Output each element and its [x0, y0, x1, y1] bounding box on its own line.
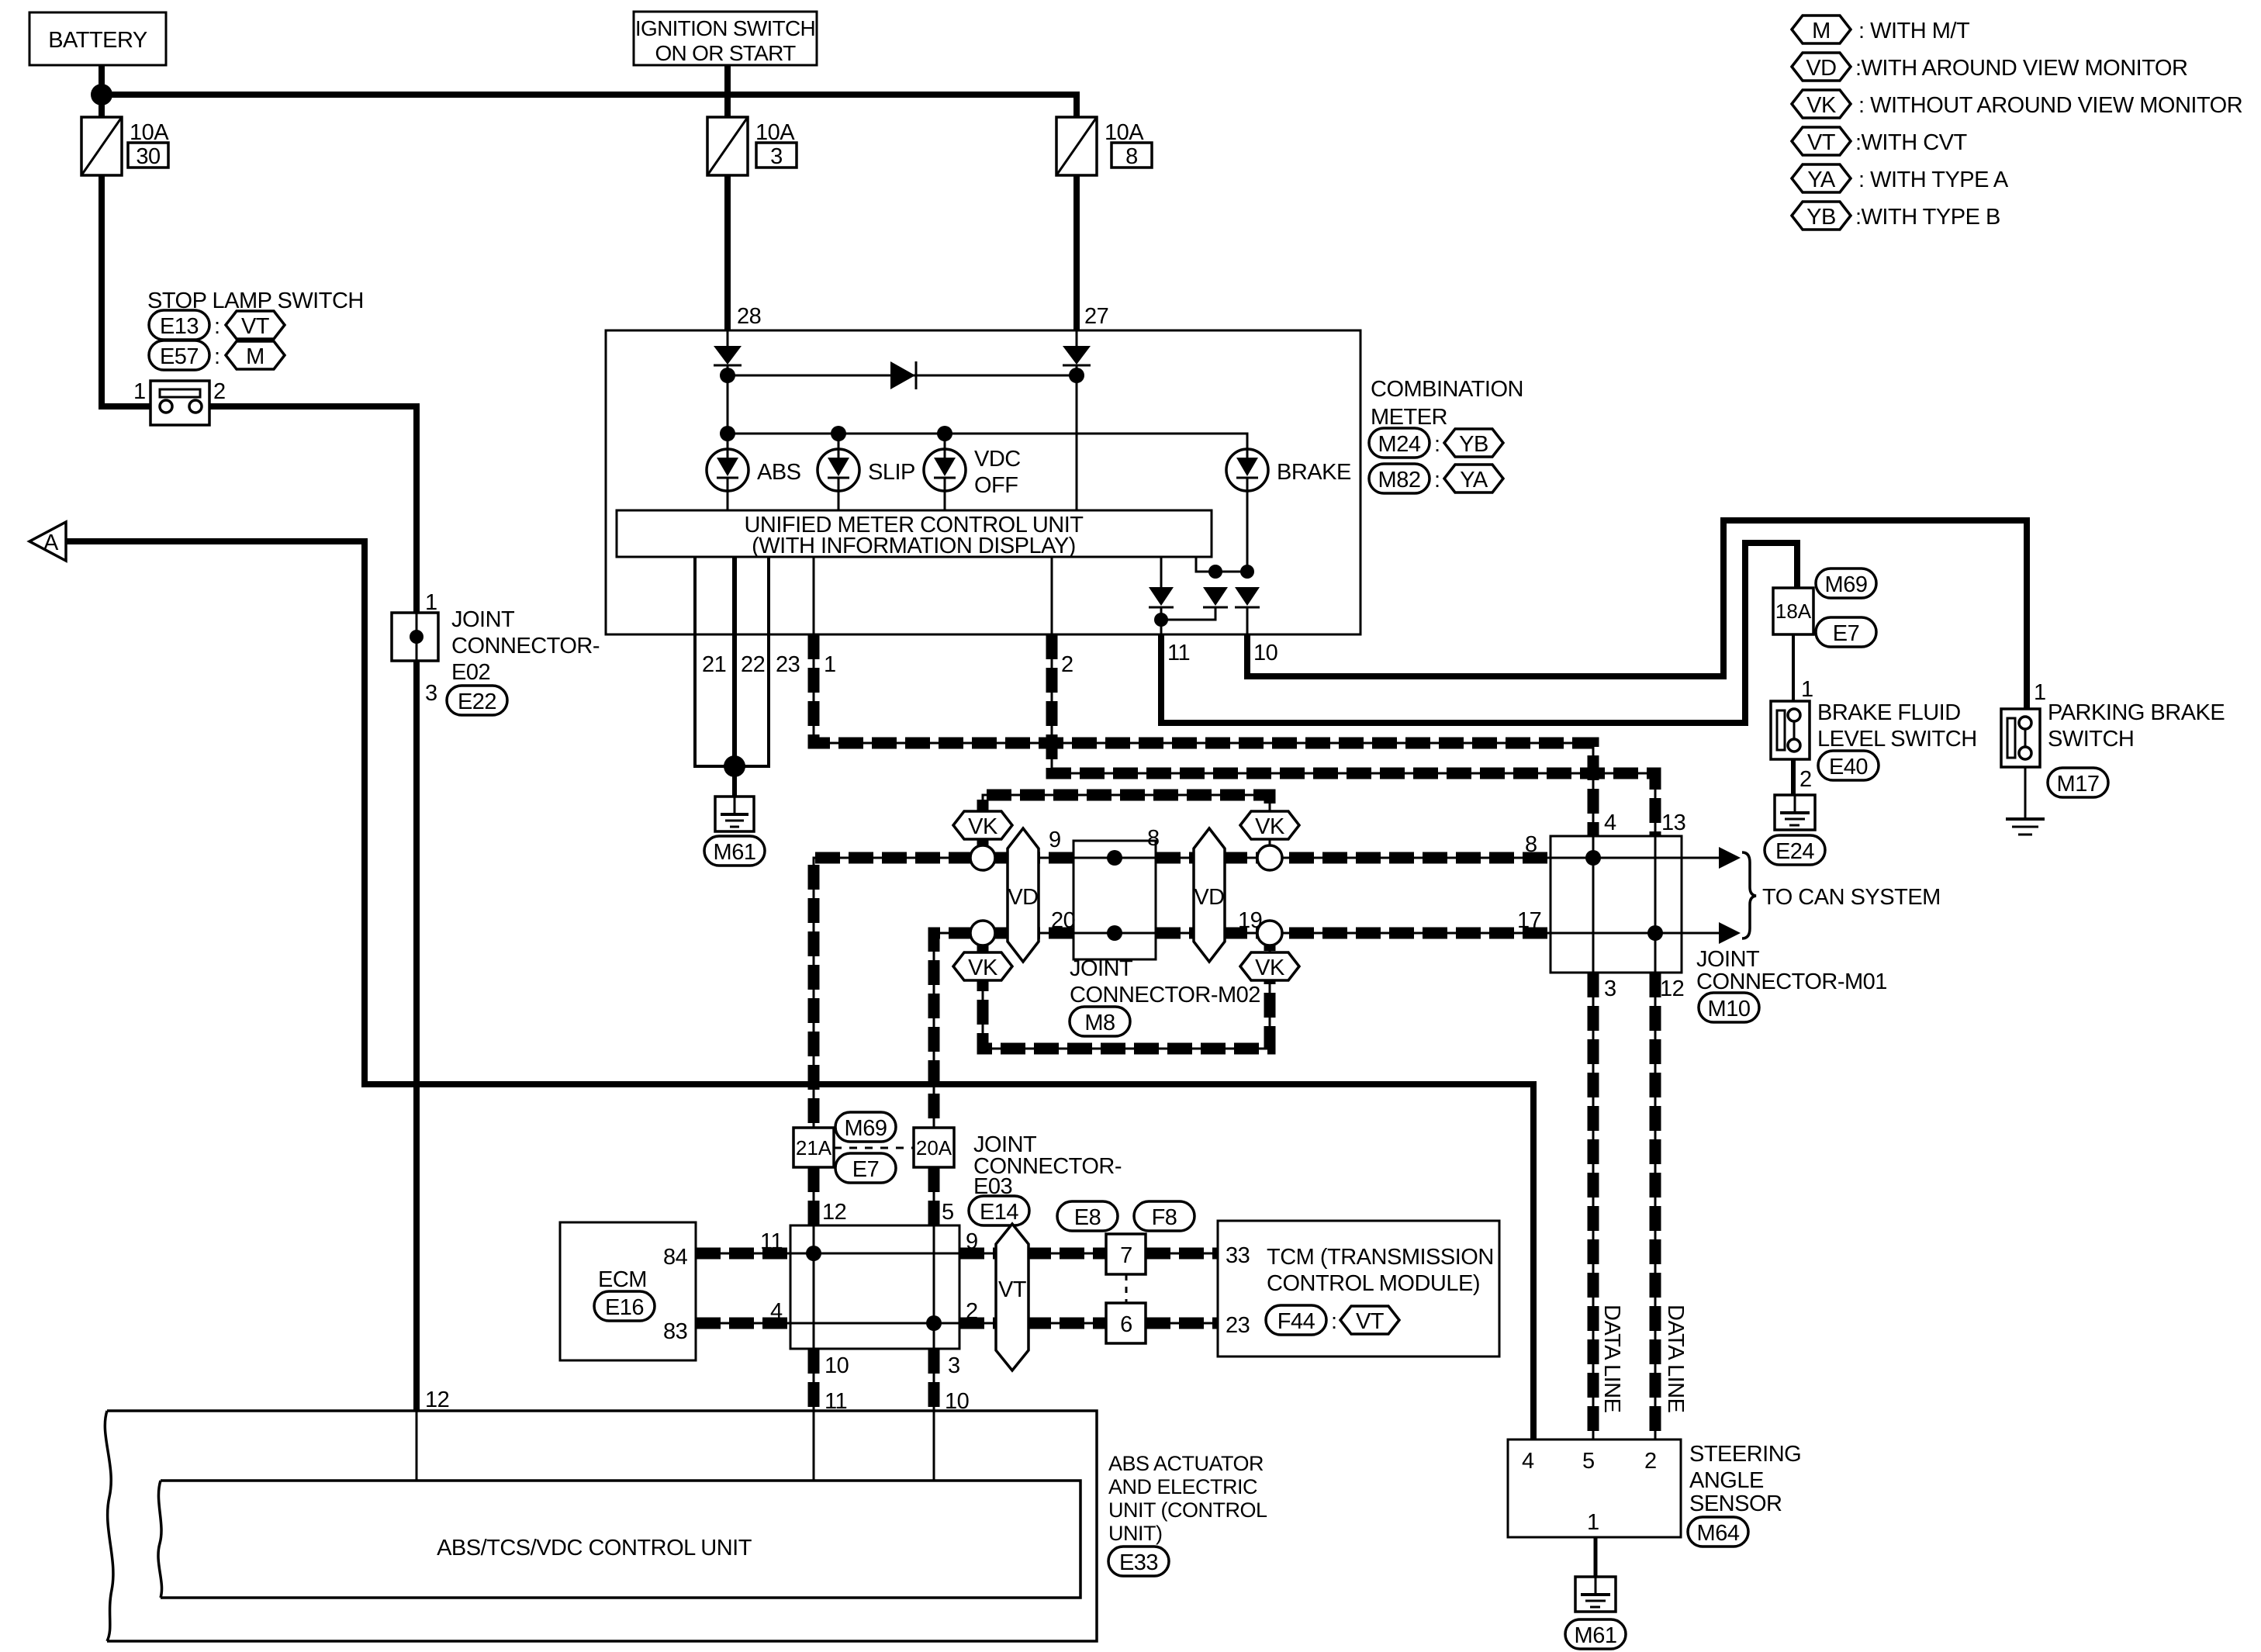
- wire stubs to LEDs: [727, 434, 729, 451]
- connector id M10: [1699, 993, 1759, 1022]
- svg-text::: :: [1434, 432, 1440, 457]
- svg-text:VK: VK: [1255, 814, 1285, 839]
- variant tag M legend: [1792, 16, 1851, 43]
- svg-text:2: 2: [1644, 1449, 1657, 1474]
- svg-text:20A: 20A: [916, 1136, 952, 1160]
- wire meter pin 28 internal: [727, 330, 729, 347]
- connector 6 box: [1106, 1303, 1146, 1343]
- svg-text:5: 5: [1582, 1449, 1595, 1474]
- svg-text::: :: [214, 314, 220, 339]
- svg-text:LEVEL SWITCH: LEVEL SWITCH: [1817, 727, 1977, 752]
- svg-text:A: A: [43, 531, 59, 555]
- svg-text:84: 84: [663, 1245, 688, 1270]
- svg-text:10: 10: [825, 1353, 849, 1378]
- svg-text:M82: M82: [1378, 468, 1421, 492]
- svg-text:: WITHOUT AROUND VIEW MONITOR: : WITHOUT AROUND VIEW MONITOR: [1858, 93, 2242, 118]
- variant tag VK lower left: [953, 952, 1012, 980]
- junction circle upper left: [970, 845, 995, 870]
- wire cross link 28-27: [728, 375, 1077, 377]
- svg-text:BATTERY: BATTERY: [48, 28, 147, 53]
- svg-text:E24: E24: [1775, 839, 1814, 864]
- joint connector E02: [392, 613, 438, 661]
- svg-text:10A: 10A: [130, 120, 169, 145]
- wire CAN row B: corner down to fuse 20A and right to M02 pin 20: [934, 933, 1073, 1128]
- svg-text:10A: 10A: [1105, 120, 1144, 145]
- svg-text::WITH TYPE B: :WITH TYPE B: [1855, 205, 2000, 230]
- svg-text:VT: VT: [241, 314, 270, 339]
- svg-text:23: 23: [1226, 1313, 1250, 1338]
- svg-text:E8: E8: [1074, 1205, 1101, 1230]
- connector id M64: [1688, 1517, 1748, 1547]
- wire reference A to steering angle sensor pin 4: [66, 541, 1533, 1439]
- svg-text:JOINT: JOINT: [1070, 956, 1133, 981]
- fuse 30 (10A): [81, 117, 122, 175]
- wire unified unit pin 2: [1051, 557, 1053, 634]
- wire data line M01 pin 12 to steering angle sensor pin 2: [1654, 973, 1657, 1439]
- variant tag M: [226, 341, 285, 369]
- svg-text:8: 8: [1147, 826, 1160, 851]
- svg-text:: WITH M/T: : WITH M/T: [1858, 19, 1970, 43]
- svg-text:VT: VT: [1356, 1309, 1385, 1334]
- svg-text:JOINT: JOINT: [1696, 947, 1760, 972]
- ABS actuator outer box: [105, 1411, 1097, 1641]
- wire CAN row A: corner down to fuse 21A and right to M02 pin 9: [814, 858, 1073, 1128]
- svg-text:DATA LINE: DATA LINE: [1599, 1305, 1624, 1413]
- variant tag YB: [1444, 429, 1503, 457]
- variant shape VT (E03): [996, 1224, 1029, 1370]
- variant tag YA legend: [1792, 164, 1851, 192]
- wire E03 pin 3 to ABS unit pin 10: [933, 1349, 935, 1411]
- svg-text:21: 21: [702, 652, 726, 677]
- svg-text:6: 6: [1120, 1312, 1132, 1337]
- svg-text:M69: M69: [845, 1116, 887, 1141]
- svg-text:OFF: OFF: [974, 473, 1018, 498]
- svg-text:TCM (TRANSMISSION: TCM (TRANSMISSION: [1267, 1245, 1494, 1270]
- connector id E7: [1816, 617, 1876, 647]
- fuse 8 (10A): [1056, 117, 1097, 175]
- svg-text:1: 1: [133, 379, 146, 404]
- svg-text:19: 19: [1238, 908, 1262, 933]
- wire E02 branch inside ABS unit: [416, 1411, 418, 1481]
- svg-text:4: 4: [1522, 1449, 1534, 1474]
- svg-text:CONNECTOR-: CONNECTOR-: [451, 634, 600, 658]
- svg-text:3: 3: [1604, 976, 1616, 1001]
- wire meter pin 11 to fuse 18A: [1161, 543, 1797, 723]
- svg-text:ABS/TCS/VDC CONTROL UNIT: ABS/TCS/VDC CONTROL UNIT: [437, 1536, 752, 1560]
- fuse 18A: [1773, 588, 1813, 634]
- svg-text:E40: E40: [1829, 755, 1868, 779]
- variant shape VD left: [1008, 828, 1039, 962]
- battery box: [29, 12, 166, 65]
- connector id M17: [2048, 768, 2108, 797]
- diode D6 pin 10 branch: [1235, 587, 1260, 607]
- wire D2 to unified meter control unit: [1076, 365, 1078, 512]
- svg-text:VT: VT: [1807, 130, 1836, 155]
- wire VK bypass loop lower: [983, 933, 1270, 1049]
- variant shape VD right: [1194, 828, 1225, 962]
- ground parking brake: [2006, 819, 2045, 835]
- ECM box: [560, 1222, 696, 1360]
- svg-text:IGNITION SWITCH: IGNITION SWITCH: [635, 16, 815, 40]
- svg-text:SLIP: SLIP: [868, 460, 915, 485]
- svg-text:YA: YA: [1460, 468, 1488, 492]
- wire diode cluster top link: [1215, 571, 1247, 573]
- svg-text:5: 5: [942, 1200, 954, 1225]
- svg-text:ABS ACTUATOR: ABS ACTUATOR: [1108, 1452, 1264, 1475]
- wire fuse 8 to meter pin 27: [1073, 175, 1080, 330]
- wire CAN row B: M02 pin 19 to M01 pin 17: [1156, 932, 1551, 935]
- svg-text:M17: M17: [2057, 772, 2100, 797]
- svg-text:M: M: [246, 344, 264, 369]
- wire LED feed row: [728, 434, 1247, 451]
- unified meter control unit box: [617, 510, 1212, 557]
- junction circle lower left: [970, 921, 995, 945]
- svg-text:E13: E13: [160, 314, 199, 339]
- svg-text::WITH AROUND VIEW MONITOR: :WITH AROUND VIEW MONITOR: [1855, 56, 2187, 81]
- connector id M82: [1369, 464, 1430, 493]
- svg-text:VK: VK: [1255, 956, 1285, 980]
- ground M61 (sensor): [1575, 1577, 1616, 1612]
- LED VDC OFF warning lamp: [924, 449, 966, 491]
- connector id F44: [1266, 1305, 1326, 1335]
- ABS/TCS/VDC control unit inner box: [158, 1481, 1080, 1598]
- svg-text:11: 11: [760, 1229, 783, 1254]
- svg-text:9: 9: [966, 1229, 978, 1254]
- svg-text:VDC: VDC: [974, 447, 1021, 472]
- svg-text:CONTROL MODULE): CONTROL MODULE): [1267, 1271, 1480, 1296]
- wire fuse 30 to stop lamp switch pin 1: [102, 175, 155, 406]
- svg-text:YB: YB: [1806, 205, 1836, 230]
- wire unified unit pin 22: [732, 557, 737, 797]
- svg-text:10: 10: [1253, 641, 1277, 665]
- wire E03 pin 10 to ABS unit pin 11: [813, 1349, 815, 1411]
- svg-text:33: 33: [1226, 1243, 1250, 1268]
- node diode cluster bottom: [1154, 613, 1168, 627]
- svg-text:BRAKE: BRAKE: [1277, 460, 1351, 485]
- wire BRAKE LED to diode cluster: [1246, 491, 1249, 572]
- node LED row SLIP: [831, 426, 846, 441]
- svg-text:E7: E7: [1833, 621, 1859, 646]
- ground M61 (meter): [715, 797, 754, 831]
- svg-text:2: 2: [213, 379, 226, 404]
- svg-text:PARKING BRAKE: PARKING BRAKE: [2048, 700, 2225, 725]
- junction circle upper right: [1257, 845, 1282, 870]
- wire steering angle sensor pin 1 to ground M61: [1594, 1537, 1598, 1577]
- svg-text:VK: VK: [1806, 93, 1837, 118]
- wire unified unit pin 1: [813, 557, 815, 634]
- joint connector E03 box: [790, 1225, 959, 1349]
- diode D1 below pin 28: [714, 346, 742, 365]
- wire pin 10 inside ABS unit: [933, 1411, 935, 1481]
- ground E24: [1775, 795, 1815, 830]
- variant tag VT: [226, 311, 285, 339]
- variant tag VT legend: [1792, 127, 1851, 155]
- svg-text:: WITH TYPE A: : WITH TYPE A: [1858, 168, 2009, 192]
- wire fuse 3 to meter pin 28: [724, 175, 731, 330]
- wire stop lamp switch pin 2 to ABS unit pin 12 (via joint connector E02): [203, 406, 417, 1411]
- connector id M24: [1369, 428, 1430, 458]
- svg-text:83: 83: [663, 1319, 687, 1344]
- svg-text::: :: [1331, 1309, 1337, 1334]
- svg-text:21A: 21A: [796, 1136, 832, 1160]
- variant tag YB legend: [1792, 202, 1851, 230]
- svg-text:M64: M64: [1697, 1521, 1740, 1546]
- svg-text:17: 17: [1517, 908, 1541, 933]
- svg-text::WITH CVT: :WITH CVT: [1855, 130, 1967, 155]
- svg-text:1: 1: [1801, 677, 1813, 702]
- svg-text:1: 1: [2034, 680, 2046, 705]
- svg-text:20: 20: [1051, 908, 1075, 933]
- diode D3 cross link: [890, 361, 916, 389]
- brake fluid level switch: [1771, 701, 1810, 759]
- wire meter pin2 CAN-L to joint connector M01 pin 13: [1052, 634, 1655, 836]
- svg-text:JOINT: JOINT: [451, 607, 515, 632]
- wire diode cluster bottom link: [1160, 607, 1163, 634]
- svg-text:VK: VK: [968, 814, 998, 839]
- connector id M61 sensor: [1565, 1619, 1626, 1649]
- svg-text:E14: E14: [980, 1200, 1018, 1225]
- variant tag VK upper right: [1240, 811, 1299, 839]
- svg-text:E57: E57: [160, 344, 199, 369]
- svg-text:8: 8: [1525, 832, 1537, 857]
- ignition switch box: [634, 12, 817, 65]
- node 27 branch: [1069, 368, 1084, 383]
- wire unified unit to diode cluster left: [1160, 557, 1163, 587]
- connector id E13: [149, 310, 209, 340]
- svg-text:M24: M24: [1378, 432, 1421, 457]
- diode D4 pin 11 branch: [1149, 587, 1174, 607]
- wire LEDs to unified meter control unit: [727, 491, 729, 512]
- LED SLIP warning lamp: [818, 449, 859, 491]
- wire data line M01 pin 3 to steering angle sensor pin 5: [1592, 973, 1595, 1439]
- connector id M61: [704, 836, 765, 866]
- connector id M69 (E7 fuse block): [835, 1112, 896, 1142]
- svg-text:1: 1: [824, 652, 836, 677]
- node LED row ABS: [720, 426, 735, 441]
- wire D1 to LED row: [727, 365, 729, 434]
- svg-text:3: 3: [770, 144, 783, 169]
- svg-text:1: 1: [425, 590, 437, 615]
- svg-text:(WITH INFORMATION DISPLAY): (WITH INFORMATION DISPLAY): [752, 534, 1076, 558]
- svg-text:8: 8: [1125, 144, 1138, 169]
- svg-text:9: 9: [1049, 828, 1061, 852]
- wire VK bypass bridge upper: [983, 795, 1270, 858]
- svg-text:DATA LINE: DATA LINE: [1663, 1305, 1688, 1413]
- svg-text:ON OR START: ON OR START: [655, 41, 796, 65]
- dashed link 7-6: [1125, 1274, 1128, 1303]
- svg-text:M10: M10: [1708, 997, 1751, 1021]
- diode D5 middle branch: [1203, 587, 1228, 607]
- svg-text:VT: VT: [998, 1277, 1027, 1302]
- connector id E8: [1057, 1201, 1118, 1231]
- fuse 21A: [793, 1128, 834, 1167]
- connector id E57: [149, 340, 209, 370]
- svg-text:SWITCH: SWITCH: [2048, 727, 2134, 752]
- connector id E40: [1818, 751, 1879, 780]
- svg-text:ANGLE: ANGLE: [1689, 1468, 1764, 1493]
- parking brake switch: [2001, 709, 2040, 767]
- joint connector M01 box: [1551, 836, 1682, 973]
- TCM box: [1218, 1221, 1499, 1357]
- svg-text:VD: VD: [1008, 885, 1038, 910]
- fuse 20A: [914, 1128, 954, 1167]
- variant tag VK lower right: [1240, 952, 1299, 980]
- svg-text:BRAKE FLUID: BRAKE FLUID: [1817, 700, 1961, 725]
- svg-text:3: 3: [948, 1353, 960, 1378]
- joint connector M02 box: [1073, 841, 1156, 959]
- svg-text:VD: VD: [1194, 885, 1224, 910]
- wire unified unit to diode cluster middle: [1196, 557, 1215, 572]
- connector id E7 (fuse block): [835, 1153, 896, 1183]
- svg-text:1: 1: [1587, 1510, 1599, 1535]
- svg-text:12: 12: [822, 1200, 846, 1225]
- connector id F8: [1134, 1201, 1194, 1231]
- wire CAN out lower with arrow: [1682, 922, 1741, 944]
- node 28 branch: [720, 368, 735, 383]
- svg-text:28: 28: [737, 304, 761, 329]
- wire connector 6 to TCM pin 23: [1146, 1322, 1218, 1325]
- svg-text:ABS: ABS: [757, 460, 801, 485]
- wire parking brake switch to ground: [2024, 766, 2027, 819]
- node diode cluster top middle: [1208, 565, 1222, 579]
- variant tag YA: [1444, 465, 1503, 492]
- variant tag VK legend: [1792, 90, 1851, 118]
- wire unified unit pin 21: [695, 557, 735, 766]
- svg-text:YA: YA: [1807, 168, 1836, 192]
- svg-text:11: 11: [1167, 641, 1190, 665]
- svg-text:E02: E02: [451, 660, 490, 685]
- svg-text:VK: VK: [968, 956, 998, 980]
- svg-text:2: 2: [1799, 767, 1812, 792]
- svg-text:CONNECTOR-M01: CONNECTOR-M01: [1696, 969, 1887, 994]
- svg-text:2: 2: [1061, 652, 1073, 677]
- connector id E24: [1765, 835, 1825, 865]
- wire meter pin1 CAN-H to joint connector M01 pin 4: [814, 634, 1593, 836]
- svg-text::: :: [214, 344, 220, 369]
- connector id E22: [447, 686, 507, 715]
- svg-text:12: 12: [1660, 976, 1684, 1001]
- svg-text:22: 22: [741, 652, 765, 677]
- svg-text:30: 30: [136, 144, 160, 169]
- svg-text:E22: E22: [458, 689, 496, 714]
- LED ABS warning lamp: [707, 449, 748, 491]
- variant tag VD legend: [1792, 53, 1851, 81]
- wire fuse 21A to joint connector E03 pin 12: [813, 1167, 815, 1225]
- connector id M69: [1816, 569, 1876, 598]
- node ground junction 21-22-23: [724, 755, 745, 777]
- svg-text:12: 12: [425, 1388, 449, 1412]
- node battery junction: [91, 84, 112, 105]
- svg-text:3: 3: [425, 681, 437, 706]
- wire battery bus to fuse 8: [102, 95, 1077, 117]
- fuse 3 (10A): [707, 117, 748, 175]
- wire E03 pin 2 to connector 6: [959, 1322, 1106, 1325]
- variant tag VT (TCM): [1340, 1306, 1399, 1334]
- svg-text:M61: M61: [1575, 1623, 1617, 1648]
- wire unified unit pin 23: [735, 557, 769, 766]
- svg-text:18A: 18A: [1775, 600, 1812, 623]
- wire CAN out upper with arrow: [1682, 847, 1741, 869]
- svg-text:ECM: ECM: [598, 1267, 647, 1292]
- wire fuse 20A to joint connector E03 pin 5: [933, 1167, 935, 1225]
- variant tag VK upper left: [953, 811, 1012, 839]
- svg-text:M61: M61: [714, 840, 756, 865]
- wire ECM 83 to E03 pin 4: [696, 1322, 790, 1325]
- svg-text:F8: F8: [1152, 1205, 1177, 1230]
- svg-text:CONNECTOR-M02: CONNECTOR-M02: [1070, 983, 1260, 1007]
- node LED row VDC OFF: [937, 426, 952, 441]
- svg-text:E7: E7: [852, 1157, 879, 1182]
- svg-text:23: 23: [776, 652, 800, 677]
- svg-text:E33: E33: [1119, 1550, 1158, 1575]
- wire ECM 84 to E03 pin 11: [696, 1253, 790, 1255]
- svg-text:VD: VD: [1806, 56, 1836, 81]
- stop lamp switch S1: [150, 381, 209, 425]
- junction circle lower right: [1257, 921, 1282, 945]
- wire E03 pin 9 to connector 7: [959, 1253, 1106, 1255]
- wire brake fluid level switch pin 2 to ground E24: [1791, 758, 1796, 795]
- steering angle sensor box: [1508, 1439, 1681, 1537]
- svg-text:4: 4: [1604, 810, 1616, 835]
- svg-text:YB: YB: [1459, 432, 1488, 457]
- svg-text:4: 4: [770, 1299, 783, 1324]
- svg-text:F44: F44: [1277, 1309, 1315, 1334]
- svg-text:E16: E16: [605, 1295, 644, 1320]
- svg-text:13: 13: [1661, 810, 1685, 835]
- wire CAN row A: M02 pin 8 to M01 pin 8: [1156, 857, 1551, 859]
- wire pin 11 inside ABS unit: [813, 1411, 815, 1481]
- svg-text:7: 7: [1120, 1243, 1132, 1268]
- brace to CAN system: [1742, 852, 1756, 938]
- wire meter pin 10 to parking brake switch pin 1: [1247, 520, 2027, 710]
- svg-text:M69: M69: [1825, 572, 1868, 597]
- svg-text:SENSOR: SENSOR: [1689, 1491, 1782, 1516]
- svg-text:AND ELECTRIC: AND ELECTRIC: [1108, 1475, 1257, 1498]
- wire fuse 18A to brake fluid level switch pin 1: [1792, 634, 1795, 703]
- wire connector 7 to TCM pin 33: [1146, 1253, 1218, 1255]
- svg-text:10A: 10A: [755, 120, 795, 145]
- connector 7 box: [1106, 1234, 1146, 1274]
- svg-text:27: 27: [1084, 304, 1108, 329]
- svg-text:STEERING: STEERING: [1689, 1442, 1801, 1467]
- connector id E14: [969, 1196, 1029, 1225]
- svg-text:METER: METER: [1371, 405, 1447, 430]
- wire ignition switch to fuse 3: [724, 65, 731, 117]
- wire meter pin 27 internal: [1076, 330, 1078, 347]
- wire battery to fuse 30: [99, 65, 105, 117]
- svg-text:2: 2: [966, 1299, 978, 1324]
- diode D2 below pin 27: [1063, 346, 1091, 365]
- connector id E16: [594, 1291, 655, 1321]
- dashed link 21A-20A: [834, 1147, 914, 1149]
- svg-text:M8: M8: [1084, 1011, 1115, 1035]
- svg-text:UNIT): UNIT): [1108, 1522, 1162, 1545]
- LED BRAKE warning lamp: [1226, 449, 1268, 491]
- svg-text:M: M: [1812, 19, 1831, 43]
- svg-text:UNIT (CONTROL: UNIT (CONTROL: [1108, 1498, 1267, 1522]
- svg-text:COMBINATION: COMBINATION: [1371, 377, 1523, 402]
- connector id M8: [1070, 1007, 1130, 1036]
- combination meter box M24/M82: [606, 330, 1360, 634]
- connector id E33: [1108, 1547, 1169, 1576]
- svg-text::: :: [1434, 468, 1440, 492]
- node diode cluster top right: [1240, 565, 1254, 579]
- svg-text:TO CAN SYSTEM: TO CAN SYSTEM: [1762, 885, 1941, 910]
